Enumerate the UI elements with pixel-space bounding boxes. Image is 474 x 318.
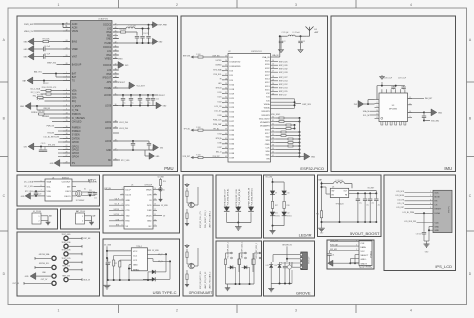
- svg-text:14: 14: [272, 60, 274, 62]
- resistor R20 VBUS pullup: [157, 176, 166, 190]
- svg-text:IPS_LCD: IPS_LCD: [435, 264, 452, 269]
- ground battery plug 2: [85, 220, 94, 225]
- svg-text:25: 25: [66, 148, 68, 150]
- svg-text:OUT: OUT: [343, 190, 347, 192]
- svg-text:VREF: VREF: [72, 49, 79, 51]
- transistor Q1 auto-program circuit: [185, 183, 198, 208]
- svg-text:16: 16: [272, 67, 274, 69]
- svg-text:LDO1: LDO1: [105, 122, 112, 124]
- svg-text:IO21: IO21: [218, 97, 222, 99]
- svg-text:3: 3: [66, 79, 67, 81]
- svg-text:I2C_1_SDA: I2C_1_SDA: [24, 181, 34, 184]
- wire PWREN stub row: [58, 130, 70, 132]
- svg-text:USB TYPE-C: USB TYPE-C: [153, 290, 177, 295]
- svg-text:RXD: RXD: [126, 221, 131, 223]
- capacitor C20 RTC VDD decoupling: [34, 190, 42, 197]
- svg-text:VBUS_5V: VBUS_5V: [24, 31, 34, 33]
- svg-text:39: 39: [272, 148, 274, 150]
- svg-text:R37: R37: [275, 205, 278, 207]
- svg-text:MPU6886: MPU6886: [389, 109, 397, 111]
- svg-text:VBUS: VBUS: [146, 189, 152, 191]
- svg-text:NC: NC: [108, 160, 112, 162]
- resistor R14 PWROK row: [31, 111, 70, 115]
- crystal X1 32.768KHz with caps: [72, 188, 97, 202]
- LED D11 IR diode: [270, 208, 281, 225]
- wire battery plug 2 pin1: [85, 215, 96, 220]
- svg-text:GPIO1: GPIO1: [72, 146, 80, 148]
- connector J2 grove port body: [300, 252, 310, 270]
- wire ACIN pin 11: [63, 26, 70, 28]
- svg-text:R13 100K: R13 100K: [120, 29, 127, 31]
- wire CHGLED row: [52, 121, 70, 123]
- svg-text:GPIO0: GPIO0: [72, 142, 80, 144]
- wire BACKUP net to BACKUP pin 28: [47, 63, 70, 65]
- connector J3 LCD FPC body: [433, 190, 452, 232]
- wire CLKOUT to 32K net: [72, 181, 97, 184]
- svg-text:TYPE-C: TYPE-C: [136, 246, 143, 248]
- port GND arrow PS row: [50, 159, 70, 166]
- svg-text:GND: GND: [438, 112, 443, 114]
- svg-text:3V3: 3V3: [354, 104, 357, 106]
- wire INT_IMU right with label: [408, 98, 434, 100]
- svg-text:1: 1: [82, 216, 83, 218]
- resistor R10 pullup SDA wire VDA pin 4: [31, 87, 71, 91]
- diode D8 button ESD: [242, 266, 250, 285]
- capacitor C15 right of rail: [151, 94, 165, 106]
- svg-text:OUT_5V: OUT_5V: [41, 279, 48, 281]
- block IPS_LCD outline: [384, 175, 456, 271]
- svg-text:PMU: PMU: [164, 166, 173, 171]
- port VCC_3V3 arrow from LDO pin: [113, 61, 128, 68]
- svg-text:LCD_CS: LCD_CS: [397, 203, 405, 205]
- svg-text:HOME: HOME: [104, 88, 111, 90]
- svg-text:29: 29: [115, 127, 117, 129]
- svg-text:13: 13: [66, 113, 68, 115]
- resistor R35 button pullup: [238, 253, 240, 272]
- svg-text:I2C_1_SCL: I2C_1_SCL: [24, 186, 33, 188]
- wire SCL_IMU net label: [363, 115, 375, 117]
- svg-text:RTC_VDD: RTC_VDD: [25, 191, 34, 193]
- svg-text:C3: C3: [303, 41, 305, 43]
- svg-text:45: 45: [225, 156, 227, 158]
- block USB TYPE-C outline: [103, 239, 180, 296]
- svg-text:R21: R21: [108, 262, 111, 264]
- svg-text:U1 AXP192: U1 AXP192: [98, 18, 108, 21]
- svg-text:FB2: FB2: [107, 35, 112, 37]
- svg-text:UD_P: UD_P: [115, 199, 119, 201]
- svg-text:IPSOUT: IPSOUT: [159, 95, 165, 97]
- inductor L2 2.2uH on LX2: [113, 25, 150, 30]
- svg-text:BTN_B: BTN_B: [216, 88, 223, 90]
- svg-text:SYS_EN: SYS_EN: [47, 133, 54, 135]
- svg-text:ESP_EN_PULL_CTL: ESP_EN_PULL_CTL: [200, 211, 202, 228]
- svg-text:D1: D1: [163, 189, 165, 191]
- wire PWR_SW to ACIN pin 10: [24, 23, 70, 28]
- svg-text:U6: U6: [332, 186, 334, 188]
- svg-text:GND: GND: [106, 150, 111, 152]
- svg-text:GND: GND: [311, 156, 316, 158]
- svg-text:D13: D13: [266, 265, 269, 267]
- svg-text:12: 12: [154, 209, 156, 211]
- svg-text:GROVE: GROVE: [296, 290, 311, 295]
- svg-text:U5: U5: [131, 185, 133, 187]
- port GND arrow ESP32 bottom bus: [300, 153, 316, 160]
- capacitor C19 0.1uF IMU top right: [398, 78, 406, 90]
- port GND arrow row with branch: [20, 102, 70, 109]
- ESP32 right upper pin wires with net labels: [271, 60, 288, 96]
- wire SYSEN row: [47, 133, 70, 135]
- wire DXTEN row long label: [44, 137, 70, 139]
- svg-text:ESP_IO13: ESP_IO13: [279, 88, 288, 90]
- svg-text:3: 3: [295, 309, 297, 313]
- svg-text:32: 32: [225, 97, 227, 99]
- svg-text:VIN1: VIN1: [106, 55, 112, 57]
- block BAT plug 2 outline: [61, 209, 100, 229]
- svg-text:LNA_IN: LNA_IN: [262, 56, 270, 59]
- svg-text:30: 30: [272, 117, 274, 119]
- svg-text:SYS_LED: SYS_LED: [48, 145, 56, 147]
- wire LED bottom rail: [272, 225, 285, 227]
- svg-text:14: 14: [154, 199, 156, 201]
- svg-text:2: 2: [82, 221, 83, 223]
- svg-text:1: 1: [58, 3, 60, 7]
- svg-text:28: 28: [66, 63, 68, 65]
- svg-text:35: 35: [115, 73, 117, 75]
- svg-text:26: 26: [66, 152, 68, 154]
- button circuit 3 resistor and diode: [253, 243, 261, 284]
- PMU IC left pin names: [72, 23, 85, 165]
- wire LCD_RS to LCD pin 3: [397, 199, 433, 201]
- svg-text:IO22: IO22: [218, 101, 222, 103]
- svg-text:SDA: SDA: [47, 181, 52, 184]
- svg-text:C10 C11: C10 C11: [143, 33, 149, 35]
- svg-text:30: 30: [225, 87, 227, 89]
- IMU bottom pin stubs: [381, 122, 406, 126]
- svg-text:2: 2: [176, 309, 178, 313]
- svg-text:U0RXD: U0RXD: [215, 65, 222, 67]
- svg-text:VDD_SDIO: VDD_SDIO: [271, 114, 281, 116]
- ESP32 bottom right strapping resistor rows: [271, 117, 301, 158]
- wire GPIO2 stub row: [58, 149, 70, 151]
- svg-text:14: 14: [66, 117, 68, 119]
- wire PDM DATA to mic: [330, 243, 359, 246]
- svg-text:CLKOUT: CLKOUT: [62, 182, 72, 184]
- svg-text:GND: GND: [435, 226, 440, 228]
- capacitor C20 on IMU VDD: [422, 112, 440, 122]
- wire boost gnd rail: [321, 198, 377, 224]
- svg-text:RTS: RTS: [126, 205, 131, 207]
- svg-text:22u: 22u: [366, 205, 369, 207]
- svg-text:41: 41: [225, 138, 227, 140]
- svg-text:ACIN: ACIN: [72, 26, 78, 29]
- svg-text:ESP32-PICO: ESP32-PICO: [251, 51, 262, 53]
- svg-text:PWREN: PWREN: [72, 131, 81, 133]
- wire GPIO0 stub row: [58, 141, 70, 143]
- svg-text:GND R: GND R: [361, 263, 368, 265]
- svg-text:47: 47: [115, 23, 117, 25]
- svg-text:LDO2: LDO2: [105, 128, 112, 130]
- svg-text:EN: EN: [267, 158, 270, 160]
- svg-text:44: 44: [115, 34, 117, 36]
- svg-text:IPSOUT: IPSOUT: [118, 82, 126, 84]
- svg-text:U4: U4: [52, 177, 54, 179]
- svg-text:N_RSTO: N_RSTO: [37, 99, 45, 101]
- svg-text:UART_TXD_GATE_3: UART_TXD_GATE_3: [209, 272, 212, 289]
- svg-text:4: 4: [66, 89, 67, 91]
- USB serial IC pin names: [126, 189, 153, 227]
- wire VDD right to GND arrow: [408, 109, 443, 116]
- wire SDA_IMU net label: [363, 110, 375, 113]
- svg-text:9: 9: [66, 109, 67, 111]
- svg-text:CLK: CLK: [265, 147, 270, 149]
- svg-text:CHGLED: CHGLED: [72, 121, 82, 123]
- port 3V3 arrow to IMU left: [354, 86, 377, 108]
- port GND arrow on cap bank: [153, 102, 167, 109]
- svg-text:15: 15: [154, 193, 156, 195]
- svg-text:C20: C20: [39, 193, 42, 195]
- svg-text:IMU: IMU: [444, 166, 452, 171]
- svg-text:34: 34: [225, 106, 227, 108]
- svg-text:13: 13: [154, 204, 156, 206]
- svg-text:GROVE_SDA: GROVE_SDA: [39, 253, 50, 256]
- svg-text:LX2: LX2: [107, 28, 112, 30]
- capacitor C18 0.1uF IMU top: [377, 78, 405, 90]
- svg-text:LNA_IN: LNA_IN: [272, 54, 279, 57]
- svg-text:23: 23: [66, 48, 68, 50]
- wire GPIO3 stub row: [58, 152, 70, 154]
- test point TP5 TEST_IO0: [62, 266, 82, 272]
- svg-text:19: 19: [272, 79, 274, 81]
- svg-text:C2: C2: [284, 41, 286, 43]
- svg-text:37: 37: [225, 119, 227, 121]
- svg-text:D12: D12: [287, 213, 290, 215]
- svg-text:SPM1423: SPM1423: [370, 251, 372, 258]
- svg-text:GND: GND: [24, 57, 29, 59]
- svg-text:PWRON: PWRON: [72, 114, 81, 116]
- svg-text:27: 27: [225, 74, 227, 76]
- svg-text:2: 2: [176, 3, 178, 7]
- RTC left pin wires with labels: [24, 180, 45, 193]
- ground buttons B: [225, 284, 230, 291]
- svg-text:40: 40: [115, 50, 117, 52]
- svg-text:D11: D11: [275, 213, 278, 215]
- svg-text:ESP_IO32: ESP_IO32: [279, 68, 288, 70]
- op-amp U5 CH9102F USB UART IC body: [124, 185, 153, 230]
- svg-text:GROVE_SCL: GROVE_SCL: [39, 263, 49, 265]
- svg-text:PWREN: PWREN: [72, 127, 81, 129]
- wire BAT input net label boost: [319, 179, 334, 211]
- svg-text:I2C_1_SDA: I2C_1_SDA: [31, 88, 41, 91]
- svg-text:26: 26: [115, 159, 117, 161]
- wire OUT_5V test point row 4: [12, 282, 51, 285]
- svg-text:VDD_SDIO: VDD_SDIO: [259, 118, 270, 120]
- wire PDM CLK to mic: [330, 240, 359, 242]
- svg-text:33: 33: [225, 101, 227, 103]
- svg-text:VBUSEN: VBUSEN: [42, 116, 50, 118]
- block GPIO/EN/UART outline: [183, 175, 213, 296]
- svg-text:SK6812: SK6812: [287, 216, 293, 218]
- capacitor C9 on feedback node: [135, 37, 139, 44]
- svg-text:20: 20: [66, 55, 68, 57]
- svg-text:VINT: VINT: [72, 56, 78, 58]
- block test points outline: [17, 232, 100, 296]
- wire grove pin 4 SCL: [292, 262, 300, 267]
- wire branch to N_TIE pin: [37, 106, 70, 110]
- op-amp U4 BM8563 RTC IC body: [45, 177, 72, 201]
- svg-text:BACKUP: BACKUP: [72, 63, 82, 66]
- block 5VOUT_BOOST outline: [318, 175, 382, 237]
- svg-text:IO1/U0TXD: IO1/U0TXD: [230, 61, 241, 63]
- svg-text:38: 38: [272, 145, 274, 147]
- block buttons B outline: [216, 241, 262, 296]
- test point TP3 TEST_IO26: [62, 250, 82, 256]
- svg-text:40: 40: [225, 133, 227, 135]
- svg-text:LDO2_3V0: LDO2_3V0: [119, 122, 128, 124]
- svg-text:TFT-FPC: TFT-FPC: [449, 205, 451, 213]
- resistor R22 CC2 pulldown: [114, 260, 131, 280]
- svg-text:LCD_BL_PWM: LCD_BL_PWM: [403, 212, 415, 214]
- svg-text:TFT_BL: TFT_BL: [184, 129, 191, 131]
- wire DCDC2 gnd rail with GND arrow: [113, 38, 163, 44]
- svg-text:LCD_MOSI: LCD_MOSI: [395, 195, 404, 197]
- svg-text:26: 26: [225, 69, 227, 71]
- svg-text:INTR_ESP_IO35_1: INTR_ESP_IO35_1: [256, 243, 258, 259]
- GPIO block vertical net labels 2: [198, 248, 212, 289]
- svg-text:41: 41: [115, 46, 117, 48]
- block USB serial outline: [103, 175, 180, 233]
- wire UD_P from connector with ESD diode D2: [147, 250, 163, 263]
- svg-text:15: 15: [272, 64, 274, 66]
- svg-text:U0RXD: U0RXD: [114, 209, 120, 211]
- svg-text:ESP_3V3: ESP_3V3: [303, 104, 311, 106]
- button circuit 2 resistor and diode: [238, 242, 246, 284]
- svg-text:PWROK: PWROK: [31, 112, 38, 114]
- svg-text:DCDC2: DCDC2: [103, 25, 112, 27]
- port BAT with TS cap to TS pin 3: [23, 77, 70, 85]
- svg-text:DCD: DCD: [147, 205, 152, 207]
- svg-text:C6 1uF: C6 1uF: [44, 46, 51, 48]
- svg-text:37: 37: [115, 64, 117, 66]
- svg-text:10: 10: [154, 219, 156, 221]
- svg-text:7: 7: [66, 100, 67, 102]
- resistor R13 feedback row: [113, 29, 137, 36]
- wire button gnd rail: [227, 222, 251, 224]
- svg-text:31: 31: [272, 120, 274, 122]
- svg-text:LCD_BL_EN 5V_EN: LCD_BL_EN 5V_EN: [44, 137, 60, 139]
- wire USB ground rail: [107, 279, 152, 281]
- svg-text:R12 10K: R12 10K: [37, 94, 44, 96]
- test point TP9 GND: [42, 272, 56, 278]
- svg-text:IO3/U0RXD: IO3/U0RXD: [230, 66, 241, 68]
- svg-text:PWR_SW: PWR_SW: [24, 24, 33, 26]
- svg-text:3V0: 3V0: [160, 147, 163, 149]
- svg-text:VDDA: VDDA: [264, 107, 270, 110]
- resistor R32 gate resistor: [185, 270, 189, 287]
- svg-text:IC_VBUSEN: IC_VBUSEN: [72, 118, 85, 120]
- svg-text:PGND: PGND: [105, 43, 112, 45]
- test point TP8 GROVE_SCL: [35, 263, 56, 269]
- svg-text:27: 27: [115, 149, 117, 151]
- svg-text:CTS: CTS: [126, 210, 131, 212]
- PMU IC right pin names: [103, 25, 112, 162]
- svg-text:SYS_SCL: SYS_SCL: [213, 74, 221, 76]
- svg-text:R10 4.7K R11 4.7K: R10 4.7K R11 4.7K: [42, 87, 57, 89]
- wire LCD_VDD to VDD pin: [404, 221, 433, 223]
- svg-text:ESP_IO12: ESP_IO12: [279, 84, 288, 86]
- svg-text:PMU_RESET_DTR_1: PMU_RESET_DTR_1: [205, 210, 207, 228]
- svg-text:WAKE_ESP_IO39_1: WAKE_ESP_IO39_1: [241, 242, 244, 259]
- svg-text:MIC_D: MIC_D: [216, 152, 222, 154]
- svg-text:5V_USB: 5V_USB: [157, 176, 163, 178]
- svg-text:C31: C31: [332, 255, 335, 257]
- svg-text:28: 28: [225, 78, 227, 80]
- wire 5V_USB net label right: [157, 205, 168, 207]
- ESP32 right pin names: [259, 56, 270, 160]
- svg-text:N_RSTO: N_RSTO: [72, 106, 81, 108]
- resistor R21 CC1 pulldown: [108, 256, 131, 281]
- svg-text:34: 34: [272, 131, 274, 133]
- port GND arrow test point row 3: [25, 273, 52, 280]
- svg-text:11: 11: [66, 26, 68, 28]
- diode D14 grove ESD: [274, 262, 281, 284]
- wire LCD_CS to LCD pin 4: [397, 203, 433, 205]
- svg-text:ESP_IO25: ESP_IO25: [279, 61, 288, 63]
- wire VBUS_5V to VBUS pin 12: [24, 31, 70, 33]
- svg-text:21: 21: [272, 86, 274, 88]
- svg-text:39: 39: [225, 129, 227, 131]
- svg-text:OUT_5V: OUT_5V: [12, 283, 19, 285]
- svg-text:10u: 10u: [123, 103, 126, 105]
- wire VDD_SDIO label: [271, 114, 281, 116]
- svg-text:VIN3: VIN3: [106, 74, 112, 76]
- ground antenna shunt 2: [298, 48, 303, 53]
- svg-text:R38: R38: [287, 205, 290, 207]
- wire LDO2 row with label: [113, 122, 128, 124]
- inductor L1 antenna matching: [279, 32, 307, 37]
- svg-text:TVS_ESD_BTN_B1: TVS_ESD_BTN_B1: [239, 189, 241, 206]
- svg-text:USB_EN: USB_EN: [43, 108, 51, 110]
- ESP32 VDDA rows to brace label: [271, 99, 311, 109]
- wire boost output rail 5V_EXT: [349, 188, 378, 195]
- button ESD diode D6 with vertical nets: [248, 187, 254, 222]
- svg-text:8: 8: [66, 105, 67, 107]
- wire 5V_USB feed: [104, 244, 131, 280]
- svg-text:22u: 22u: [378, 205, 381, 207]
- svg-text:44: 44: [225, 151, 227, 153]
- svg-text:12: 12: [66, 30, 68, 32]
- svg-text:42: 42: [225, 142, 227, 144]
- svg-text:5V_LED: 5V_LED: [266, 177, 273, 179]
- svg-text:38: 38: [225, 124, 227, 126]
- wire BAT pin 2: [56, 76, 70, 78]
- svg-text:APS: APS: [107, 81, 112, 84]
- diode D13 grove ESD: [266, 262, 273, 284]
- svg-text:5V_EXT: 5V_EXT: [368, 188, 376, 190]
- capacitor C31 mic decoupling: [327, 251, 334, 264]
- svg-text:21: 21: [66, 141, 68, 143]
- svg-text:ESP_EN: ESP_EN: [105, 188, 112, 190]
- svg-text:N_TIE: N_TIE: [72, 110, 79, 112]
- port GND with capacitor C7 to VINT pin 20: [24, 53, 71, 60]
- svg-text:10: 10: [66, 23, 68, 25]
- svg-text:19: 19: [66, 137, 68, 139]
- capacitor C10 C11 on DCDC2 output: [140, 28, 150, 44]
- svg-text:C19 0.1uF: C19 0.1uF: [398, 78, 406, 80]
- svg-text:ESP_IO14: ESP_IO14: [279, 81, 288, 83]
- wire DCDC2 output rail with label ESP_5V: [113, 22, 168, 28]
- wire VDD5 row: [157, 215, 166, 217]
- svg-text:ESP_EN: ESP_EN: [84, 238, 91, 240]
